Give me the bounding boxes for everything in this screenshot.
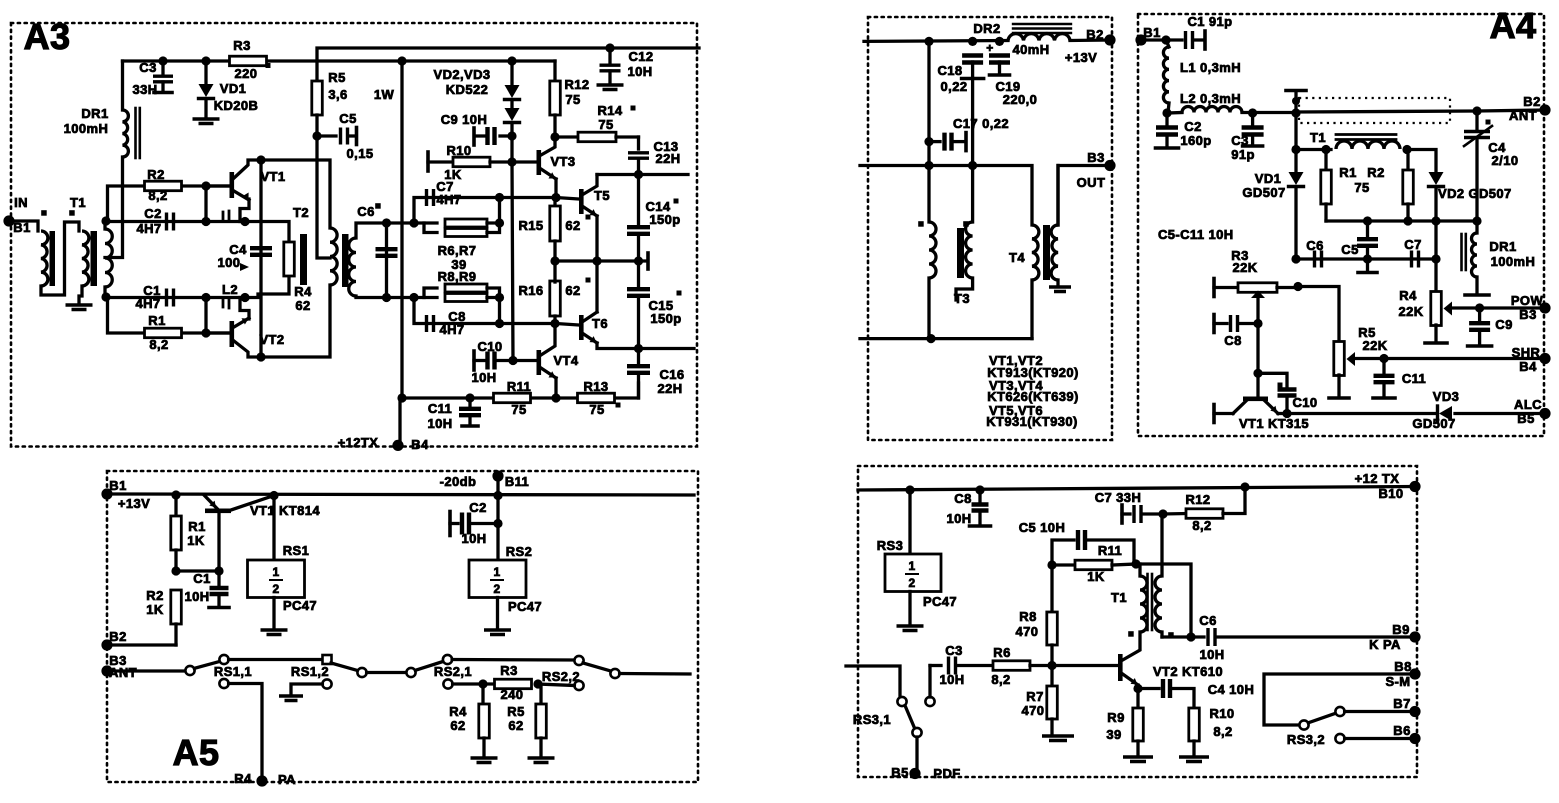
- svg-text:R12: R12: [1185, 492, 1210, 507]
- transformer T1 output winding: [105, 229, 112, 287]
- wire T3 right bottom: [956, 278, 973, 300]
- svg-text:R4: R4: [1399, 288, 1417, 303]
- junction C2 A4: [1162, 108, 1171, 117]
- junction row C right: [495, 319, 504, 328]
- wire +12TX rail: [858, 487, 1415, 491]
- transistor type list: [986, 353, 1079, 429]
- junction C7 R12: [1158, 509, 1167, 518]
- transistor VT2: [206, 318, 285, 357]
- svg-text:R10: R10: [446, 143, 471, 158]
- svg-text:R4: R4: [449, 704, 467, 719]
- svg-text:KD522: KD522: [446, 82, 488, 97]
- wire throw link: [367, 671, 407, 674]
- capacitor C2 A5: [450, 500, 498, 546]
- svg-text:22K: 22K: [1362, 338, 1387, 353]
- phase mark T1 bot b: [1168, 632, 1174, 638]
- svg-text:+13V: +13V: [1065, 50, 1097, 65]
- svg-text:1W: 1W: [374, 87, 395, 102]
- svg-text:T4: T4: [1009, 250, 1025, 265]
- junction emitter wire 2: [201, 293, 210, 302]
- svg-text:VT1 KT315: VT1 KT315: [1239, 416, 1309, 431]
- wire C7 branch: [414, 198, 556, 224]
- svg-text:22K: 22K: [1232, 260, 1257, 275]
- resistor R5 A4 pot: [1329, 325, 1388, 398]
- resistor R2 A5: [107, 588, 181, 645]
- wire loop feed bottom: [387, 296, 415, 299]
- transistor VT1 A5: [204, 495, 320, 571]
- ground T4: [1049, 287, 1071, 292]
- phase mark T1 primary: [41, 210, 47, 216]
- coax dashed box: [1299, 98, 1450, 123]
- wire row 221: [1326, 219, 1477, 222]
- svg-text:IN: IN: [14, 195, 28, 210]
- svg-text:ANT: ANT: [1509, 108, 1537, 123]
- capacitor C10 A4: [1258, 373, 1318, 413]
- junction C10 node: [508, 356, 517, 365]
- svg-text:B1: B1: [1143, 25, 1160, 40]
- junction VT4 emitter: [551, 393, 560, 402]
- svg-text:C17 0,22: C17 0,22: [953, 116, 1009, 131]
- svg-text:C6: C6: [357, 204, 374, 219]
- svg-text:220: 220: [235, 66, 258, 81]
- svg-text:10H: 10H: [946, 511, 971, 526]
- phase mark T1 secondary: [69, 210, 75, 216]
- switch RS2.2: [542, 656, 620, 684]
- diode VD1: [199, 61, 259, 117]
- resistor R10 bot: [1189, 706, 1235, 755]
- resistor R6: [414, 219, 487, 227]
- svg-text:VD2 GD507: VD2 GD507: [1438, 186, 1512, 201]
- label A5: [173, 732, 220, 773]
- junction loop right: [495, 218, 504, 227]
- svg-text:R15: R15: [518, 218, 543, 233]
- svg-text:40mH: 40mH: [1012, 42, 1049, 57]
- svg-text:100mH: 100mH: [1491, 254, 1536, 269]
- resistor R5 A5: [507, 686, 546, 757]
- svg-text:L2: L2: [222, 282, 238, 297]
- resistor R1 A5: [171, 495, 206, 571]
- wire VD1 column: [1294, 113, 1297, 172]
- junction VD2 chain: [507, 56, 516, 65]
- junction C9 A4: [1475, 303, 1484, 312]
- wire C8 branch: [414, 298, 556, 324]
- svg-text:RS1,2: RS1,2: [291, 664, 329, 679]
- wire R5 down: [315, 115, 318, 136]
- transformer T2 label: [293, 205, 309, 220]
- svg-text:VD2,VD3: VD2,VD3: [434, 67, 491, 82]
- ground VD1: [193, 119, 220, 124]
- svg-text:C2: C2: [469, 500, 486, 515]
- junction C3 A4: [1248, 108, 1257, 117]
- node B6: [1393, 723, 1420, 744]
- wire B3 to T4: [1058, 166, 1110, 226]
- wire loop right top: [487, 198, 500, 224]
- ground RS1: [261, 630, 288, 635]
- transformer T1 A4 winding: [1336, 141, 1400, 149]
- inductor L1 A4: [1163, 40, 1241, 103]
- svg-text:10H: 10H: [627, 64, 652, 79]
- transformer T1 label: [70, 195, 86, 210]
- junction VT6 base: [550, 319, 559, 328]
- svg-text:62: 62: [565, 283, 580, 298]
- junction C6 bottom: [382, 293, 391, 302]
- svg-text:2: 2: [493, 582, 500, 596]
- svg-text:GD507: GD507: [1242, 185, 1285, 200]
- transformer T1 primary winding: [41, 231, 48, 286]
- capacitor C3 bot: [939, 643, 993, 687]
- T1 A4 core: [1336, 135, 1396, 140]
- resistor R12 bot: [1163, 487, 1245, 533]
- svg-text:C12: C12: [628, 49, 653, 64]
- switch RS3.1: [853, 697, 922, 737]
- junction R3 right: [533, 679, 542, 688]
- svg-text:VD1: VD1: [220, 81, 247, 96]
- svg-text:22K: 22K: [1398, 304, 1423, 319]
- svg-text:4H7: 4H7: [439, 322, 464, 337]
- capacitor C2: [106, 206, 240, 236]
- junction row259 left: [1291, 254, 1300, 263]
- resistor R4 A4 pot: [1398, 288, 1452, 343]
- svg-text:1K: 1K: [1087, 569, 1105, 584]
- wire RS3.2 B6: [1345, 737, 1415, 740]
- resistor R1 A4: [1321, 150, 1385, 222]
- capacitor C8 bot: [946, 490, 990, 526]
- svg-text:GD507: GD507: [1412, 416, 1455, 431]
- wire C14 line: [637, 175, 640, 262]
- diode VD2 A4: [1429, 172, 1512, 292]
- ground RS3: [897, 626, 924, 631]
- wire T4 right top: [1056, 166, 1059, 226]
- svg-text:T1: T1: [1310, 130, 1326, 145]
- svg-text:B5: B5: [891, 765, 908, 780]
- svg-text:R3: R3: [500, 663, 517, 678]
- svg-text:PA: PA: [278, 772, 296, 787]
- wire loop right bottom: [487, 298, 500, 324]
- svg-text:R4: R4: [294, 284, 312, 299]
- svg-text:T2: T2: [293, 205, 309, 220]
- wire left stub: [846, 666, 900, 696]
- svg-text:VD3: VD3: [1433, 389, 1460, 404]
- wire B3 to switch: [107, 669, 185, 672]
- wire emitter2 to R4 bottom: [245, 276, 289, 298]
- svg-text:K PA: K PA: [1369, 637, 1401, 652]
- switch RS3.2 lower contact: [1335, 734, 1344, 743]
- svg-text:8,2: 8,2: [149, 337, 168, 352]
- junction loop right 2: [495, 293, 504, 302]
- T1 core bar 2: [91, 231, 98, 286]
- wire DR2 to B2: [1070, 38, 1110, 42]
- svg-text:T1: T1: [1111, 590, 1127, 605]
- svg-text:1K: 1K: [187, 533, 205, 548]
- svg-text:VT1: VT1: [260, 169, 285, 184]
- wire T3 left column: [927, 166, 930, 223]
- wire DR1 top: [121, 61, 124, 110]
- wire T1 output top: [103, 221, 106, 229]
- svg-text:1K: 1K: [146, 602, 164, 617]
- node B10: [1355, 471, 1421, 501]
- junction row221 C4: [1472, 216, 1481, 225]
- junction R10 right: [507, 157, 516, 166]
- wire bias vertical: [512, 162, 513, 361]
- ground RS1.2: [279, 696, 303, 701]
- junction C11: [465, 393, 474, 402]
- svg-text:100: 100: [218, 255, 241, 270]
- wire VD chain to R10: [510, 136, 513, 162]
- svg-text:B2: B2: [1086, 27, 1103, 42]
- junction row A right: [495, 193, 504, 202]
- ground C12: [597, 85, 624, 90]
- svg-text:62: 62: [565, 218, 580, 233]
- junction RS1 A5: [269, 491, 278, 500]
- svg-text:0,15: 0,15: [347, 146, 374, 161]
- resistor R12: [550, 61, 590, 137]
- wire ALC row: [1287, 412, 1437, 415]
- svg-text:470: 470: [1022, 703, 1045, 718]
- label C5-C11: [1158, 227, 1234, 242]
- junction R11 left: [1047, 560, 1056, 569]
- svg-text:R1: R1: [188, 519, 205, 534]
- junction C18b: [968, 37, 977, 46]
- junction bottom row: [926, 334, 935, 343]
- inductor L2 A4: [1180, 91, 1242, 113]
- junction loop top: [409, 218, 418, 227]
- switch RS3.1 contact: [925, 666, 934, 707]
- resistor R3 A5: [495, 663, 532, 702]
- T1 bot core: [1148, 574, 1153, 630]
- resistor R3: [230, 38, 271, 81]
- svg-text:C9: C9: [1495, 317, 1512, 332]
- block A3 border: [11, 23, 697, 447]
- node junction bottom secondary: [101, 292, 110, 301]
- junction C11 A4: [1379, 354, 1388, 363]
- svg-text:+: +: [986, 41, 993, 55]
- wire IN to T1: [9, 221, 38, 231]
- inductor L1: [223, 199, 249, 222]
- transistor VT1 A4: [1214, 397, 1309, 432]
- node B5 A4: [1514, 397, 1551, 426]
- svg-text:10H: 10H: [461, 531, 486, 546]
- svg-text:A5: A5: [173, 732, 220, 773]
- svg-text:VT4: VT4: [553, 353, 578, 368]
- junction RS3: [905, 485, 914, 494]
- transformer T3 core: [957, 228, 964, 278]
- wire base row bot: [930, 664, 941, 667]
- junction row259 C5: [1363, 254, 1372, 263]
- wire RS2.2 out: [620, 672, 690, 676]
- wire L1 to L2: [1168, 103, 1169, 113]
- wire SWR row: [1355, 357, 1545, 360]
- svg-text:A4: A4: [1490, 5, 1537, 46]
- wire RS3.1 to B5: [915, 737, 918, 771]
- svg-text:B3: B3: [1519, 307, 1536, 322]
- transformer T2 secondary: [349, 238, 356, 296]
- node B1 A4: [1135, 25, 1160, 46]
- svg-text:8,2: 8,2: [991, 672, 1010, 687]
- wire RS3.2 B7: [1345, 710, 1415, 713]
- junction L1 emitter: [240, 217, 249, 226]
- svg-text:R3: R3: [233, 38, 250, 53]
- wire switch bus 1: [229, 658, 322, 661]
- node B5 bot: [891, 765, 960, 781]
- junction C10 branch: [1253, 369, 1262, 378]
- svg-text:A3: A3: [24, 16, 71, 57]
- svg-text:B1: B1: [109, 478, 126, 493]
- svg-text:2/10: 2/10: [1492, 153, 1519, 168]
- svg-text:RS1,1: RS1,1: [214, 664, 252, 679]
- svg-text:0,22: 0,22: [941, 79, 968, 94]
- svg-text:VT1 KT814: VT1 KT814: [250, 503, 320, 518]
- wire T4 left bottom: [1030, 280, 1033, 339]
- capacitor C2 A4: [1156, 113, 1212, 148]
- node B2 middle: [1065, 27, 1116, 65]
- svg-text:B11: B11: [505, 474, 529, 489]
- wire T2 sec top: [356, 223, 387, 238]
- svg-text:C7: C7: [1404, 237, 1421, 252]
- svg-text:L1 0,3mH: L1 0,3mH: [1180, 60, 1241, 75]
- svg-text:T3: T3: [954, 291, 970, 306]
- junction antenna stub: [1291, 108, 1300, 117]
- wire B1 to C1: [1141, 38, 1182, 41]
- svg-text:KT931(KT930): KT931(KT930): [986, 414, 1078, 429]
- junction L2 emitter: [240, 293, 249, 302]
- wire R5 line to T2 tap: [317, 136, 330, 258]
- svg-text:RS1: RS1: [283, 543, 310, 558]
- relay RS1: [248, 496, 318, 629]
- junction T1 right: [1402, 145, 1411, 154]
- svg-text:POW: POW: [1511, 293, 1544, 308]
- svg-text:T5: T5: [594, 188, 610, 203]
- diode VD2: [505, 61, 520, 100]
- junction VT5 base: [551, 193, 560, 202]
- resistor R1: [108, 297, 231, 352]
- ground R4 A5: [471, 758, 498, 763]
- capacitor C6: [357, 203, 397, 297]
- wire bypass link: [1136, 564, 1191, 637]
- svg-text:RS3: RS3: [877, 538, 904, 553]
- block A4 border: [1138, 14, 1544, 436]
- node junction top secondary: [101, 216, 110, 225]
- wire base tie VT1: [204, 186, 207, 222]
- junction T3 left col: [924, 161, 933, 170]
- svg-text:B2: B2: [109, 629, 126, 644]
- node B11: [440, 470, 530, 489]
- junction emitter wire: [201, 217, 210, 226]
- wire row 259: [1296, 257, 1436, 260]
- inductor L2: [222, 282, 249, 319]
- contact square RS1.2: [323, 655, 332, 664]
- capacitor C14: [627, 199, 681, 234]
- wire rail +13V: [864, 39, 1008, 43]
- svg-text:R14: R14: [597, 103, 622, 118]
- svg-text:DR1: DR1: [1489, 239, 1516, 254]
- junction rail left: [397, 393, 406, 402]
- wire T1 middle winding to ground: [79, 286, 82, 303]
- svg-text:220,0: 220,0: [1003, 92, 1038, 107]
- wire C18 column down: [971, 79, 974, 223]
- svg-text:T1: T1: [70, 195, 86, 210]
- resistor R8 bot: [1016, 565, 1058, 665]
- svg-text:4H7: 4H7: [136, 221, 161, 236]
- capacitor C4 variable: [1464, 111, 1518, 221]
- choke DR2: [973, 21, 1070, 57]
- capacitor C5 bot: [1019, 520, 1134, 565]
- svg-text:C9 10H: C9 10H: [441, 112, 487, 127]
- resistor R2: [108, 167, 231, 221]
- node B3 A4: [1511, 293, 1551, 322]
- junction row261 C14: [634, 256, 643, 265]
- switch RS1.1 lower contact: [219, 679, 228, 688]
- label T3: [954, 291, 970, 306]
- node B8: [1385, 659, 1420, 689]
- svg-text:C1 91p: C1 91p: [1187, 14, 1232, 29]
- svg-text:2: 2: [272, 582, 279, 596]
- wire T4 right bottom: [1056, 280, 1059, 285]
- capacitor C4: [218, 242, 272, 271]
- svg-text:RS3,2: RS3,2: [1287, 732, 1325, 747]
- svg-text:R8: R8: [1019, 609, 1036, 624]
- wire rail2 y48: [317, 48, 699, 81]
- svg-text:B2: B2: [1523, 94, 1540, 109]
- wire T1 output bottom: [103, 287, 106, 297]
- capacitor C9: [441, 112, 512, 145]
- svg-text:C10: C10: [1292, 395, 1317, 410]
- ground R9: [1123, 757, 1153, 762]
- wire DR1 to T1 tap: [105, 157, 123, 258]
- wire T3 left bottom: [927, 278, 930, 339]
- junction C10 ALC: [1282, 409, 1291, 418]
- junction R3 right: [1293, 282, 1302, 291]
- svg-text:B7: B7: [1393, 696, 1410, 711]
- label R8,R9: [438, 269, 477, 284]
- svg-text:R1: R1: [148, 313, 165, 328]
- svg-text:C5: C5: [1341, 242, 1358, 257]
- wire row 261: [555, 253, 648, 269]
- svg-text:C16: C16: [659, 367, 684, 382]
- transformer T1 A4 label: [1310, 130, 1326, 145]
- svg-text:RS2,2: RS2,2: [542, 669, 580, 684]
- svg-text:DR2: DR2: [973, 21, 1000, 36]
- node B2 A4: [1509, 94, 1551, 123]
- diode VD3: [505, 100, 520, 136]
- svg-text:150p: 150p: [649, 212, 680, 227]
- capacitor C10: [471, 339, 513, 385]
- transformer T4 label: [1009, 250, 1025, 265]
- ground RS2: [484, 630, 511, 635]
- junction VT2 collector: [256, 352, 265, 361]
- junction R1 base: [201, 328, 210, 337]
- svg-text:R5: R5: [507, 704, 524, 719]
- T1 bot left winding: [1140, 564, 1147, 632]
- transformer T3 left winding: [929, 222, 936, 278]
- wire RS1.2 ground: [291, 684, 322, 694]
- svg-text:B4: B4: [411, 437, 429, 452]
- wire base row: [176, 569, 219, 572]
- svg-text:33H: 33H: [132, 82, 157, 97]
- svg-text:3,6: 3,6: [328, 87, 347, 102]
- resistor R16: [518, 261, 590, 324]
- phase mark T1 bot a: [1128, 631, 1134, 637]
- svg-text:10H: 10H: [1199, 647, 1224, 662]
- capacitor C1 A4: [1186, 14, 1233, 49]
- T1 bot right winding: [1155, 514, 1162, 637]
- switch RS1.2 lower contact: [322, 679, 331, 688]
- junction emitter bot: [1133, 684, 1142, 693]
- ground R5 A5: [528, 758, 555, 763]
- capacitor C11: [427, 398, 481, 431]
- junction B11 col: [493, 491, 502, 500]
- svg-text:R9: R9: [1107, 710, 1124, 725]
- resistor R5: [312, 70, 395, 115]
